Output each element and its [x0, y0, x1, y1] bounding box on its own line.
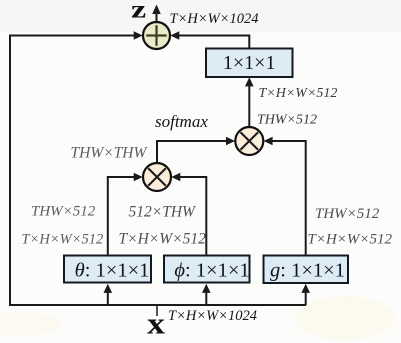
label z [131, 0, 146, 23]
svg-text:x: x [147, 307, 165, 341]
svg-text:THW×512: THW×512 [257, 113, 317, 128]
arrowhead into mul1 from right [171, 173, 180, 182]
svg-text:THW×512: THW×512 [315, 206, 380, 222]
arrowhead into mul1 from left [134, 173, 143, 182]
wire phi path [177, 177, 206, 256]
wire mul1 to mul2 (softmax) [157, 141, 229, 163]
svg-text:θ: 1×1×1: θ: 1×1×1 [75, 260, 150, 282]
svg-text:T×H×W×512: T×H×W×512 [22, 232, 104, 248]
wire residual: left riser and bottom bus [10, 36, 306, 306]
wire bus arrow riser theta [107, 291, 109, 305]
svg-text:THW×THW: THW×THW [71, 145, 149, 162]
arrowhead z up [152, 5, 161, 15]
label x input [147, 307, 165, 341]
svg-text:g: 1×1×1: g: 1×1×1 [270, 260, 345, 282]
arrowhead into phi box [202, 284, 211, 293]
svg-text:T×H×W×1024: T×H×W×1024 [168, 308, 257, 324]
arrowhead into plus from left [134, 31, 143, 40]
svg-text:T×H×W×1024: T×H×W×1024 [170, 11, 259, 27]
mul2 circle (matmul with g) [235, 127, 263, 155]
arrowhead into plus from right [170, 31, 179, 40]
svg-text:1×1×1: 1×1×1 [223, 52, 276, 74]
box theta [64, 256, 151, 283]
arrowhead into mul2 from right [264, 137, 273, 146]
svg-text:512×THW: 512×THW [129, 204, 198, 221]
svg-text:T×H×W×512: T×H×W×512 [259, 86, 338, 101]
wire from top 1x1x1 box to plus circle [173, 36, 249, 49]
wire mul2 to top box [248, 85, 250, 127]
wire bus arrow riser phi [205, 291, 207, 305]
arrowhead into mul2 from left [226, 137, 235, 146]
wire x input stub [156, 305, 158, 316]
arrowhead into g box [301, 284, 310, 293]
wire bus arrow riser g [305, 291, 307, 305]
svg-text:softmax: softmax [155, 112, 208, 131]
wire g path [269, 141, 306, 256]
svg-text:z: z [131, 0, 146, 23]
svg-text:ϕ: 1×1×1: ϕ: 1×1×1 [174, 260, 249, 282]
box 1x1x1 top [206, 49, 293, 78]
box phi [164, 256, 250, 283]
svg-text:T×H×W×512: T×H×W×512 [308, 232, 393, 248]
box g [264, 256, 349, 284]
mul1 circle (theta x phi matmul) [143, 163, 171, 191]
svg-text:T×H×W×512: T×H×W×512 [119, 231, 207, 248]
wire z output up [156, 12, 158, 21]
plus circle (sum) [143, 22, 170, 49]
arrowhead into theta box [104, 284, 113, 293]
wire theta path [108, 177, 137, 256]
arrowhead into top box [245, 77, 254, 86]
svg-text:THW×512: THW×512 [31, 204, 96, 220]
